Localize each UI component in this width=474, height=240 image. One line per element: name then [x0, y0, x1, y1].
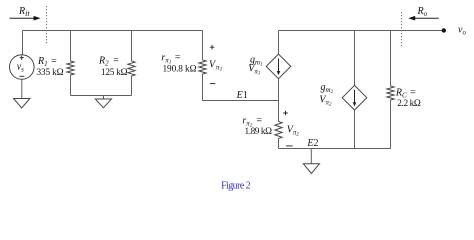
svg-text:125 kΩ: 125 kΩ: [101, 68, 128, 78]
svg-text:vo: vo: [458, 24, 466, 36]
svg-text:Vπ2: Vπ2: [319, 94, 332, 107]
svg-text:2.2 kΩ: 2.2 kΩ: [397, 99, 421, 109]
svg-text:Figure 2: Figure 2: [221, 180, 251, 191]
svg-text:RC =: RC =: [395, 87, 416, 99]
svg-text:vs: vs: [17, 61, 24, 73]
svg-text:1.89 kΩ: 1.89 kΩ: [245, 127, 273, 137]
svg-text:Vπ2: Vπ2: [287, 124, 300, 137]
svg-text:rπ1 =: rπ1 =: [161, 53, 180, 66]
svg-text:gm2: gm2: [321, 82, 334, 95]
svg-text:Rit: Rit: [18, 6, 30, 18]
svg-text:E2: E2: [306, 138, 318, 149]
svg-text:R2 =: R2 =: [98, 56, 119, 68]
svg-text:190.8 kΩ: 190.8 kΩ: [163, 65, 197, 75]
svg-text:Vπ1: Vπ1: [209, 59, 223, 72]
svg-text:R1 =: R1 =: [37, 56, 57, 68]
svg-text:335 kΩ: 335 kΩ: [37, 68, 64, 78]
svg-text:E1: E1: [236, 90, 248, 101]
svg-text:Ro: Ro: [417, 6, 428, 18]
